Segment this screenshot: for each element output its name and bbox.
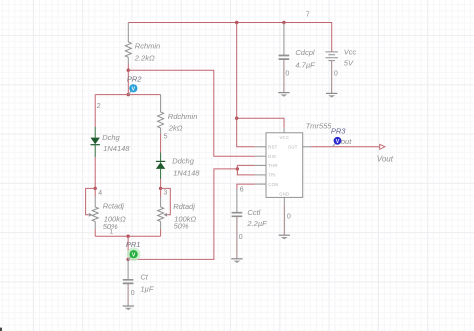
wire node4 to Rctadj: [94, 188, 96, 196]
wire rail down to VCC tap: [236, 23, 238, 119]
svg-text:50%: 50%: [174, 222, 189, 231]
potentiometer Rdtadj body: [158, 207, 164, 222]
junction Ct node: [126, 258, 129, 261]
node Vout output flag: [380, 144, 385, 149]
svg-text:4: 4: [98, 190, 102, 197]
svg-text:V: V: [132, 253, 136, 259]
svg-text:Rctadj: Rctadj: [103, 202, 125, 211]
wire Rdtadj to bottom rail: [160, 229, 162, 236]
svg-text:7: 7: [306, 12, 310, 19]
ground at Vcc: [326, 92, 337, 94]
lead Rdchmin top: [160, 95, 162, 112]
svg-text:5V: 5V: [344, 58, 354, 67]
probe PR3: [334, 137, 342, 145]
probe PR3 stem: [332, 144, 335, 148]
svg-text:VCC: VCC: [280, 135, 290, 140]
wire Cdcpl to ground: [283, 59, 285, 93]
wire Ct node to THR TRI: [128, 169, 237, 260]
junction top rail RST tap: [235, 21, 238, 24]
wire to RST pin: [237, 118, 255, 147]
svg-text:Rdtadj: Rdtadj: [173, 202, 195, 211]
capacitor Cctl lead: [236, 189, 238, 212]
svg-text:Rdchmin: Rdchmin: [168, 112, 198, 121]
wire node2 to Dchg: [94, 95, 96, 127]
junction node 2 tap: [127, 93, 130, 96]
svg-text:V: V: [131, 87, 135, 93]
svg-text:V: V: [336, 139, 340, 145]
svg-text:Ct: Ct: [140, 272, 148, 281]
svg-text:Tmr555: Tmr555: [306, 122, 333, 131]
capacitor Ct lead: [127, 259, 129, 279]
junction VCC tap: [235, 117, 238, 120]
probe PR1: [130, 250, 138, 258]
svg-text:Rchmin: Rchmin: [135, 41, 160, 50]
wire top rail net 7: [128, 22, 331, 24]
svg-text:0: 0: [285, 71, 289, 78]
wire Ct to ground: [127, 283, 129, 306]
svg-text:Cdcpl: Cdcpl: [295, 48, 315, 57]
svg-text:Vout: Vout: [377, 155, 394, 164]
svg-text:2.2µF: 2.2µF: [246, 219, 267, 228]
svg-text:out: out: [341, 137, 352, 146]
lead Rctadj bottom: [94, 222, 96, 230]
junction node 4: [94, 187, 97, 190]
junction THR TRI tie: [236, 167, 239, 170]
wire rail to Ct node: [127, 236, 129, 259]
battery Vcc: [325, 52, 338, 61]
svg-text:PR1: PR1: [126, 240, 141, 249]
wire rail to Vcc battery: [331, 22, 333, 52]
svg-text:PR3: PR3: [331, 127, 346, 136]
lead Rchmin bottom: [127, 57, 129, 63]
svg-text:TRI: TRI: [268, 173, 276, 178]
svg-text:1µF: 1µF: [140, 284, 153, 293]
wire Ddchg to node 3: [160, 179, 162, 188]
wire GND pin to ground: [283, 205, 285, 235]
wire PR2 node down: [127, 70, 129, 94]
svg-text:2.2kΩ: 2.2kΩ: [134, 53, 155, 62]
svg-text:3: 3: [163, 189, 167, 196]
svg-text:4.7µF: 4.7µF: [295, 60, 315, 69]
pin stub OUT: [303, 146, 311, 148]
wire Rchmin to PR2 node: [127, 64, 129, 71]
svg-text:0: 0: [239, 234, 243, 241]
svg-text:1N4148: 1N4148: [173, 169, 200, 178]
lead Rdchmin bottom: [160, 128, 162, 134]
junction node 3: [159, 187, 162, 190]
wire bottom rail node 1: [95, 235, 160, 237]
wire CON pin to Cctl: [237, 184, 255, 189]
capacitor Cdcpl lead top: [283, 23, 285, 56]
probe PR2: [129, 84, 137, 92]
svg-text:0: 0: [131, 290, 135, 297]
junction bottom rail centre: [126, 235, 129, 238]
svg-text:1N4148: 1N4148: [103, 144, 130, 153]
wire node3 to Rdtadj: [160, 188, 162, 196]
capacitor Ct: [123, 280, 134, 284]
junction PR2 node: [127, 69, 130, 72]
ground at GND pin: [279, 234, 290, 236]
op-amp U1 Tmr555 body: [266, 133, 303, 198]
svg-text:5: 5: [164, 133, 168, 140]
capacitor Cdcpl: [279, 56, 290, 60]
diode Ddchg: [160, 153, 162, 163]
svg-text:0: 0: [287, 213, 291, 220]
wire Rctadj to bottom rail: [94, 229, 96, 236]
resistor Rdchmin: [158, 112, 164, 128]
ground at Cdcpl: [278, 92, 289, 94]
potentiometer Rctadj wiper arrow: [89, 213, 93, 217]
potentiometer Rdtadj wiper bracket: [161, 188, 171, 214]
svg-text:1: 1: [109, 228, 113, 235]
wire PR2 node to DIS pin: [128, 70, 255, 156]
svg-text:PR2: PR2: [127, 75, 142, 84]
svg-text:THR: THR: [268, 163, 277, 168]
wire Rdchmin to Ddchg: [160, 134, 162, 153]
lead Rdtadj bottom: [160, 222, 162, 230]
svg-text:Cctl: Cctl: [247, 208, 260, 217]
resistor Rchmin: [125, 42, 131, 57]
svg-text:Ddchg: Ddchg: [172, 156, 195, 165]
svg-text:0: 0: [334, 71, 338, 78]
wire node 2 rail: [95, 94, 160, 96]
lead Rctadj top: [94, 197, 96, 208]
lead Rdtadj top: [160, 197, 162, 208]
ground at Cctl: [231, 258, 242, 260]
svg-text:RST: RST: [268, 145, 277, 150]
svg-text:CON: CON: [268, 182, 278, 187]
lead Rchmin top: [127, 23, 129, 43]
wire Dchg to node 4: [94, 157, 96, 188]
probe PR1 stem: [128, 256, 131, 259]
svg-text:6: 6: [240, 187, 244, 194]
svg-text:DIS: DIS: [268, 154, 276, 159]
probe PR1 halo: [127, 247, 141, 261]
probe PR2 stem: [128, 91, 131, 94]
svg-text:OUT: OUT: [288, 145, 298, 150]
wire to VCC pin: [237, 118, 284, 128]
diode Dchg: [94, 127, 96, 138]
potentiometer Rctadj body: [92, 207, 98, 222]
wire Cctl to ground: [236, 216, 238, 258]
wire Vcc to ground: [331, 61, 333, 94]
svg-text:GND: GND: [279, 191, 289, 196]
potentiometer Rdtadj wiper arrow: [164, 213, 168, 217]
pin stub VCC: [283, 128, 285, 133]
pin stubs left: [255, 146, 266, 148]
corner mark: [0, 328, 2, 331]
svg-text:Vcc: Vcc: [344, 47, 357, 56]
svg-text:Dchg: Dchg: [102, 133, 120, 142]
capacitor Cctl: [232, 213, 243, 217]
svg-text:2kΩ: 2kΩ: [168, 124, 183, 133]
pin stub GND: [283, 197, 285, 204]
potentiometer Rctadj wiper bracket: [86, 188, 96, 214]
junction top rail Cdcpl tap: [282, 21, 285, 24]
wire to THR pin: [237, 165, 254, 169]
ground at Ct: [123, 305, 134, 307]
wire to TRI pin: [237, 169, 254, 175]
wire OUT net: [311, 146, 379, 148]
svg-text:2: 2: [97, 103, 101, 110]
